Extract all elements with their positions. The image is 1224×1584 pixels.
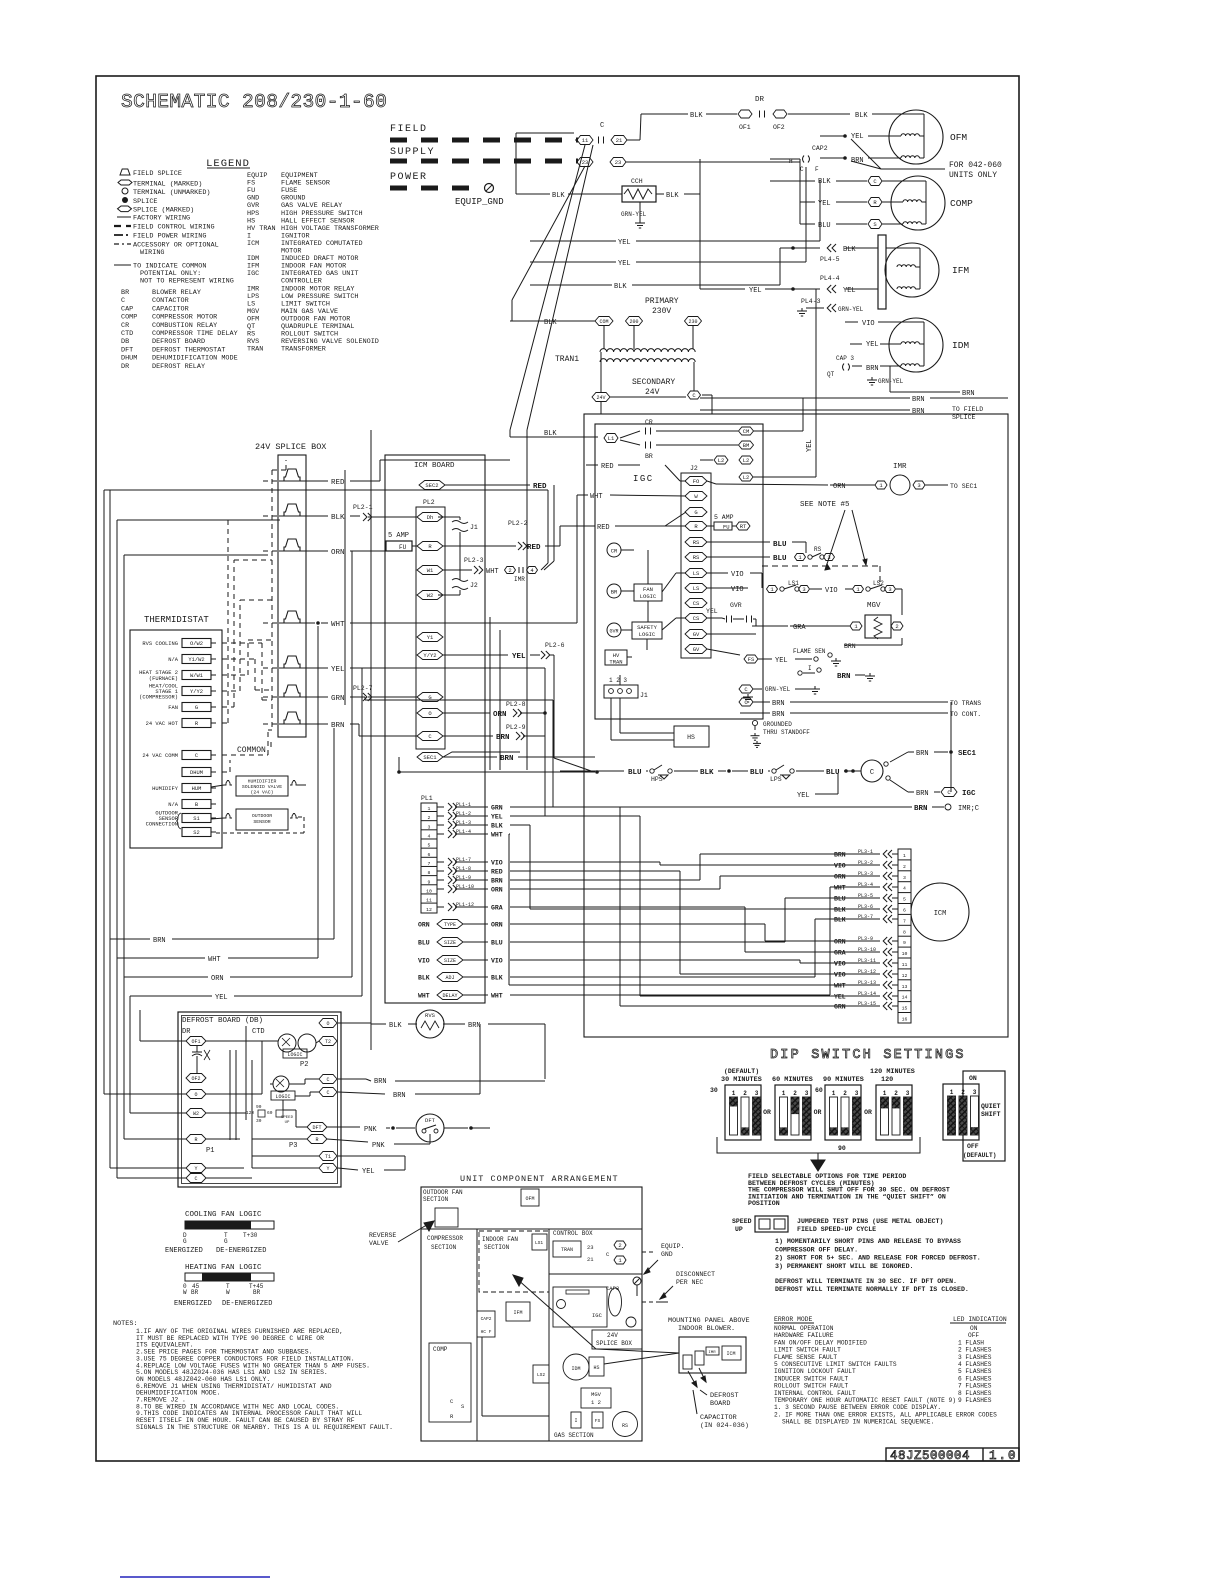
svg-text:DEFROST WILL TERMINATE NORMALL: DEFROST WILL TERMINATE NORMALLY IF DFT I… — [775, 1286, 969, 1293]
svg-text:DIP SWITCH SETTINGS: DIP SWITCH SETTINGS — [770, 1048, 966, 1063]
svg-text:G: G — [694, 509, 697, 516]
svg-text:RED: RED — [491, 869, 503, 876]
svg-text:SEC1: SEC1 — [423, 754, 437, 761]
svg-text:TEMPORARY ONE HOUR AUTOMATIC R: TEMPORARY ONE HOUR AUTOMATIC RESET FAULT… — [774, 1397, 956, 1404]
wire BRN lower left — [110, 728, 334, 945]
capacitor in DB — [192, 1046, 210, 1073]
svg-text:TYPE: TYPE — [444, 922, 456, 928]
svg-text:BLK: BLK — [331, 514, 345, 522]
svg-text:SEC1: SEC1 — [958, 750, 977, 758]
svg-text:FO: FO — [693, 478, 700, 485]
IGC section enclosure — [584, 414, 1008, 1037]
IGC board box — [595, 424, 763, 719]
svg-text:W2: W2 — [193, 1111, 199, 1117]
svg-text:15: 15 — [902, 1006, 908, 1012]
svg-text:60: 60 — [815, 1087, 823, 1094]
svg-text:2: 2 — [895, 623, 898, 630]
svg-text:TO FIELD: TO FIELD — [952, 406, 983, 413]
PL2-7 plug — [353, 685, 417, 701]
svg-text:IGC: IGC — [592, 1312, 603, 1319]
svg-text:(FURNACE): (FURNACE) — [149, 676, 178, 682]
svg-text:YEL: YEL — [749, 287, 762, 295]
svg-text:PNK: PNK — [372, 1142, 385, 1150]
svg-text:1: 1 — [854, 623, 858, 630]
svg-text:PL4-5: PL4-5 — [820, 256, 840, 263]
error mode table — [774, 1316, 1007, 1426]
svg-text:FIELD CONTROL WIRING: FIELD CONTROL WIRING — [133, 224, 215, 232]
svg-text:R: R — [195, 721, 199, 727]
svg-text:DFT: DFT — [425, 1117, 436, 1124]
svg-text:BRN: BRN — [153, 937, 166, 945]
svg-text:120 MINUTES: 120 MINUTES — [870, 1068, 915, 1076]
svg-text:3: 3 — [917, 482, 920, 489]
SEC1 node — [890, 702, 977, 792]
numbered instructions — [775, 1238, 981, 1293]
svg-text:2: 2 — [961, 1089, 965, 1096]
svg-text:C: C — [600, 122, 604, 130]
flame sensor — [707, 648, 875, 681]
svg-text:COMMON: COMMON — [237, 746, 266, 755]
svg-text:LS: LS — [693, 570, 700, 577]
PL2-1 plug — [353, 504, 417, 521]
svg-text:YEL: YEL — [851, 133, 864, 141]
svg-text:IMR;C: IMR;C — [958, 805, 979, 813]
svg-text:P1: P1 — [206, 1147, 214, 1155]
svg-text:T+30: T+30 — [243, 1232, 258, 1239]
svg-text:SAFETY: SAFETY — [637, 624, 658, 631]
svg-text:1 2 3: 1 2 3 — [609, 677, 627, 684]
PL3 wire ORN — [834, 936, 898, 946]
svg-text:HPS: HPS — [651, 776, 663, 783]
svg-text:IGC: IGC — [633, 474, 654, 484]
svg-text:GRA: GRA — [491, 905, 503, 912]
svg-text:C: C — [326, 1077, 329, 1083]
svg-text:O: O — [428, 710, 432, 717]
svg-text:OF1: OF1 — [191, 1039, 200, 1045]
svg-text:(IN 024-036): (IN 024-036) — [700, 1422, 749, 1430]
svg-text:10: 10 — [426, 888, 432, 894]
svg-text:ORN: ORN — [491, 887, 503, 894]
svg-text:OFM: OFM — [525, 1196, 534, 1202]
hall effect sensor HS — [611, 698, 709, 747]
svg-text:VIO: VIO — [834, 863, 846, 870]
svg-text:ERROR MODE: ERROR MODE — [774, 1316, 813, 1323]
svg-text:COMPRESSOR MOTOR: COMPRESSOR MOTOR — [152, 314, 217, 322]
svg-text:3: 3 — [903, 875, 906, 881]
defrost board DB box — [178, 1012, 341, 1187]
svg-text:C: C — [121, 297, 125, 305]
wire ORN lower left — [124, 551, 352, 983]
svg-text:1: 1 — [832, 1090, 836, 1097]
svg-text:23: 23 — [615, 159, 622, 166]
svg-text:LOGIC: LOGIC — [640, 593, 657, 600]
svg-text:GVR: GVR — [609, 629, 618, 635]
svg-text:60 MINUTES: 60 MINUTES — [772, 1076, 813, 1084]
svg-text:24 VAC HOT: 24 VAC HOT — [146, 721, 179, 727]
svg-text:4: 4 — [903, 886, 906, 892]
PL3 wire BLK — [834, 914, 898, 924]
svg-text:FS: FS — [595, 1418, 601, 1424]
svg-text:FACTORY WIRING: FACTORY WIRING — [133, 215, 190, 223]
svg-text:C: C — [800, 166, 804, 173]
svg-text:9: 9 — [428, 879, 431, 885]
svg-text:W2: W2 — [427, 592, 434, 599]
svg-text:UP: UP — [285, 1121, 290, 1125]
svg-text:ICM: ICM — [247, 240, 259, 248]
svg-text:THERMIDISTAT: THERMIDISTAT — [144, 615, 209, 625]
svg-text:BRN: BRN — [916, 790, 929, 798]
svg-text:FIELD SPLICE: FIELD SPLICE — [133, 170, 182, 178]
svg-text:MGV: MGV — [867, 602, 881, 610]
svg-text:VIO: VIO — [491, 860, 503, 867]
svg-text:14: 14 — [902, 995, 908, 1001]
svg-text:7: 7 — [903, 918, 906, 924]
svg-text:30 MINUTES: 30 MINUTES — [721, 1076, 762, 1084]
splice box wire labels — [306, 460, 577, 736]
svg-text:HEATING FAN LOGIC: HEATING FAN LOGIC — [185, 1264, 262, 1272]
wire RED into IGC 2 — [586, 524, 686, 532]
svg-text:5: 5 — [903, 897, 906, 903]
svg-text:L2: L2 — [743, 457, 750, 464]
svg-text:IMR: IMR — [708, 1351, 716, 1355]
svg-text:CS: CS — [693, 615, 700, 622]
relay GVR circle — [607, 623, 621, 637]
IGC node — [890, 780, 976, 798]
svg-text:WHT: WHT — [491, 993, 503, 1000]
svg-text:W1: W1 — [427, 567, 434, 574]
svg-text:120: 120 — [246, 1110, 254, 1116]
svg-text:2: 2 — [618, 1242, 621, 1249]
svg-text:3: 3 — [755, 1090, 759, 1097]
svg-text:2. IF MORE THAN ONE ERROR EXIS: 2. IF MORE THAN ONE ERROR EXISTS, ALL AP… — [774, 1411, 997, 1418]
svg-text:4 FLASHES: 4 FLASHES — [958, 1361, 992, 1368]
svg-text:5 AMP: 5 AMP — [388, 532, 409, 540]
svg-text:PER NEC: PER NEC — [676, 1279, 703, 1286]
ICM terminal C — [417, 732, 443, 741]
svg-text:FS: FS — [748, 656, 755, 663]
relay BR circle — [607, 584, 621, 598]
svg-text:RED: RED — [597, 524, 610, 532]
svg-text:DE-ENERGIZED: DE-ENERGIZED — [222, 1300, 272, 1308]
svg-text:R: R — [873, 199, 877, 206]
svg-text:FU: FU — [723, 524, 730, 531]
bracket under dip switches — [717, 1137, 920, 1171]
svg-text:ADJ: ADJ — [445, 975, 454, 981]
svg-text:OF2: OF2 — [191, 1076, 200, 1082]
svg-text:48JZ500004: 48JZ500004 — [890, 1449, 970, 1463]
svg-text:21: 21 — [616, 137, 623, 144]
svg-text:YEL: YEL — [706, 608, 718, 615]
svg-text:L1: L1 — [608, 435, 615, 442]
svg-text:S1: S1 — [193, 816, 199, 822]
dip switch 30 minutes — [710, 1068, 762, 1140]
svg-text:C: C — [194, 1176, 197, 1182]
wire PNK 2 — [327, 1139, 430, 1150]
contactor coil C — [797, 760, 890, 800]
svg-text:J1: J1 — [640, 692, 648, 699]
svg-text:3 FLASHES: 3 FLASHES — [958, 1354, 992, 1361]
ICM terminal R — [417, 542, 443, 551]
svg-text:120: 120 — [881, 1076, 893, 1084]
high pressure switch HPS chain — [560, 765, 855, 783]
svg-text:11: 11 — [426, 898, 432, 904]
svg-text:J2: J2 — [690, 465, 698, 472]
svg-text:Y1/W2: Y1/W2 — [188, 657, 204, 663]
svg-text:BLU: BLU — [418, 940, 430, 947]
svg-text:P3: P3 — [289, 1142, 297, 1150]
PL2-2 plug — [443, 520, 595, 552]
transformer TRAN1 — [510, 297, 702, 402]
svg-text:GRA: GRA — [834, 950, 846, 957]
svg-text:BLU: BLU — [773, 541, 787, 549]
speed up jumper — [732, 1216, 943, 1233]
svg-text:I: I — [808, 665, 812, 672]
svg-text:CAPACITOR: CAPACITOR — [700, 1414, 737, 1422]
svg-text:ORN: ORN — [418, 922, 430, 929]
svg-text:W: W — [694, 493, 698, 500]
svg-text:R: R — [694, 523, 698, 530]
wire BRN to cont — [740, 711, 981, 730]
terminal SEC1 — [417, 753, 443, 762]
ICM option TYPE — [418, 920, 503, 929]
svg-text:BRN: BRN — [962, 390, 975, 398]
svg-text:1: 1 — [883, 1090, 887, 1097]
svg-text:S: S — [873, 221, 877, 228]
svg-text:REVERSE: REVERSE — [369, 1232, 396, 1239]
limit switch LS1 — [707, 580, 852, 595]
blower relay contact BR — [620, 440, 754, 460]
svg-text:R: R — [315, 1137, 318, 1143]
svg-text:230V: 230V — [652, 307, 671, 316]
svg-text:N/A: N/A — [168, 657, 178, 663]
svg-text:C: C — [326, 1090, 329, 1096]
svg-text:LS1: LS1 — [535, 1240, 543, 1246]
svg-text:4: 4 — [428, 833, 431, 839]
svg-text:JUMPERED TEST PINS (USE METAL: JUMPERED TEST PINS (USE METAL OBJECT) — [797, 1218, 943, 1225]
PL3 wire WHT — [834, 882, 898, 892]
svg-text:LED INDICATION: LED INDICATION — [953, 1316, 1007, 1323]
svg-text:ICM BOARD: ICM BOARD — [414, 462, 455, 470]
ICM terminal Y1 — [417, 633, 443, 642]
svg-text:12: 12 — [426, 907, 432, 913]
svg-text:5 FLASHES: 5 FLASHES — [958, 1368, 992, 1375]
svg-text:BLK: BLK — [700, 769, 714, 777]
svg-text:C: C — [195, 753, 198, 759]
svg-text:1 2: 1 2 — [591, 1399, 601, 1406]
terminal SEC2 — [419, 481, 554, 571]
svg-text:3: 3 — [802, 586, 805, 593]
svg-text:S2: S2 — [193, 830, 199, 836]
svg-text:1: 1 — [618, 1257, 622, 1264]
svg-text:I: I — [574, 1418, 577, 1424]
svg-text:R: R — [194, 1137, 197, 1143]
svg-text:THRU STANDOFF: THRU STANDOFF — [763, 729, 810, 736]
rollout switch RS — [707, 546, 835, 563]
svg-text:3) PERMANENT SHORT WILL BE IGN: 3) PERMANENT SHORT WILL BE IGNORED. — [775, 1263, 914, 1270]
CTD timer — [252, 1028, 316, 1058]
wire YEL lower left — [130, 668, 362, 1002]
svg-text:ENERGIZED: ENERGIZED — [165, 1247, 203, 1255]
svg-text:30: 30 — [710, 1087, 718, 1094]
ICM option ADJ — [418, 973, 503, 982]
svg-text:PL2-7: PL2-7 — [353, 685, 373, 692]
fuse FU 5 AMP — [386, 532, 417, 551]
svg-text:DEFROST RELAY: DEFROST RELAY — [152, 363, 205, 371]
ICM option SIZE — [418, 938, 503, 947]
terminal C GRN-YEL — [739, 685, 820, 702]
svg-text:VIO: VIO — [418, 958, 430, 965]
svg-text:C: C — [450, 1398, 454, 1405]
svg-text:90 MINUTES: 90 MINUTES — [823, 1076, 864, 1084]
svg-text:FLAME SENSE FAULT: FLAME SENSE FAULT — [774, 1354, 837, 1361]
svg-text:PL2-3: PL2-3 — [464, 557, 484, 564]
svg-text:BLK: BLK — [491, 975, 503, 982]
svg-text:IDM: IDM — [571, 1366, 580, 1372]
defrost board callout — [688, 1368, 749, 1430]
svg-text:Y1: Y1 — [427, 634, 434, 641]
svg-text:SCHEMATIC 208/230-1-60: SCHEMATIC 208/230-1-60 — [121, 91, 387, 113]
svg-text:DEFROST WILL TERMINATE IN 30 S: DEFROST WILL TERMINATE IN 30 SEC. IF DFT… — [775, 1278, 957, 1285]
svg-text:T2: T2 — [325, 1039, 331, 1045]
svg-text:NOTES:: NOTES: — [113, 1320, 137, 1328]
svg-text:C: C — [606, 1251, 610, 1258]
svg-text:ENERGIZED: ENERGIZED — [174, 1300, 212, 1308]
svg-text:1: 1 — [950, 1089, 954, 1096]
svg-text:SHIFT: SHIFT — [981, 1111, 1001, 1118]
svg-text:BLK: BLK — [544, 430, 557, 438]
wire YEL vertical to L2 — [806, 289, 816, 477]
field control dashed wires thermidistat to splice box — [222, 460, 286, 772]
svg-text:BLK: BLK — [491, 823, 503, 830]
svg-text:GVR: GVR — [730, 602, 742, 609]
svg-text:3: 3 — [855, 1090, 859, 1097]
svg-text:24V SPLICE BOX: 24V SPLICE BOX — [255, 442, 326, 452]
svg-text:BLU: BLU — [750, 769, 764, 777]
svg-text:VALVE: VALVE — [369, 1240, 389, 1247]
svg-text:FAN ON/OFF DELAY MODIFIED: FAN ON/OFF DELAY MODIFIED — [774, 1339, 867, 1346]
svg-text:6 FLASHES: 6 FLASHES — [958, 1375, 992, 1382]
svg-text:C: C — [428, 733, 432, 740]
svg-text:ORN: ORN — [834, 939, 846, 946]
capacitor CAP2 — [770, 145, 828, 173]
defrost logic relay — [271, 1076, 295, 1100]
svg-text:230: 230 — [688, 319, 697, 325]
outdoor fan motor OFM — [820, 110, 967, 165]
center long wires — [345, 402, 601, 1050]
svg-text:BLU: BLU — [628, 769, 642, 777]
svg-text:YEL: YEL — [512, 653, 526, 661]
svg-text:SPLICE: SPLICE — [133, 198, 157, 206]
wire YEL defrost — [338, 1156, 405, 1176]
PL1 pin 3 wire BLK — [437, 820, 503, 830]
svg-text:2) SHORT FOR 5+ SEC. AND RELEA: 2) SHORT FOR 5+ SEC. AND RELEASE FOR FOR… — [775, 1255, 981, 1262]
svg-text:WHT: WHT — [834, 983, 846, 990]
ICM terminal W1 — [417, 566, 443, 575]
svg-text:DEFROST BOARD: DEFROST BOARD — [152, 338, 205, 346]
svg-text:BLK: BLK — [834, 917, 846, 924]
svg-text:EQUIP.: EQUIP. — [661, 1243, 684, 1250]
heating fan logic bar — [174, 1264, 274, 1308]
terminal T1 — [319, 1152, 337, 1161]
PL2-6 plug — [443, 642, 599, 774]
jumper J2 — [438, 579, 478, 596]
svg-text:TRAN: TRAN — [561, 1247, 573, 1253]
dip switch 120 minutes — [864, 1068, 915, 1140]
svg-text:OUTDOOR FAN: OUTDOOR FAN — [423, 1189, 463, 1196]
wire BLK to L1 — [510, 430, 618, 443]
svg-text:HUM: HUM — [192, 786, 202, 792]
internal IGC wiring — [620, 465, 686, 685]
svg-text:POSITION: POSITION — [748, 1200, 780, 1207]
svg-text:RED: RED — [527, 544, 541, 552]
svg-text:DR: DR — [182, 1028, 191, 1036]
legend block — [114, 158, 379, 371]
title block 48JZ500004 — [886, 1448, 1019, 1463]
PL2-8 plug — [443, 701, 547, 719]
svg-text:11: 11 — [582, 137, 589, 144]
svg-text:T1: T1 — [325, 1154, 331, 1160]
svg-text:PL4-4: PL4-4 — [820, 275, 840, 282]
svg-text:HV TRAN: HV TRAN — [247, 225, 276, 233]
svg-text:BLK: BLK — [855, 112, 868, 120]
svg-text:SPEED: SPEED — [281, 1116, 294, 1120]
svg-text:BRN: BRN — [837, 673, 851, 681]
terminal DFT — [307, 1123, 327, 1132]
svg-text:BRN: BRN — [468, 1022, 481, 1030]
svg-text:YEL: YEL — [866, 341, 879, 349]
svg-text:CS: CS — [693, 600, 700, 607]
svg-text:YEL: YEL — [362, 1168, 375, 1176]
svg-text:C: C — [744, 686, 748, 693]
svg-text:R: R — [450, 1413, 454, 1420]
cooling fan logic bar — [165, 1211, 274, 1255]
svg-text:ICM: ICM — [934, 910, 947, 918]
common label — [237, 742, 271, 755]
svg-text:RS: RS — [622, 1423, 628, 1429]
svg-text:F: F — [815, 166, 819, 173]
SEC1 wire BRN — [443, 752, 595, 763]
IMR C node — [560, 804, 979, 813]
svg-text:ROLLOUT SWITCH FAULT: ROLLOUT SWITCH FAULT — [774, 1383, 849, 1390]
PL3 wire VIO — [834, 860, 898, 870]
svg-text:BM: BM — [743, 442, 750, 449]
svg-text:G: G — [183, 1238, 187, 1245]
PL3 wire VIO — [834, 969, 898, 979]
svg-text:LPS: LPS — [770, 776, 782, 783]
combustion relay contact CR — [620, 419, 754, 438]
grounded thru standoff — [751, 721, 811, 747]
svg-text:BRN: BRN — [834, 852, 846, 859]
svg-text:(COMPRESSOR): (COMPRESSOR) — [139, 695, 178, 701]
svg-text:SEC2: SEC2 — [425, 482, 438, 489]
svg-text:Y: Y — [326, 1166, 329, 1172]
svg-text:2: 2 — [743, 1090, 747, 1097]
svg-text:SENSOR: SENSOR — [253, 819, 270, 825]
svg-text:GRN: GRN — [491, 805, 503, 812]
svg-text:BR: BR — [611, 589, 618, 596]
svg-text:BRN: BRN — [844, 643, 856, 650]
svg-text:BLK: BLK — [834, 907, 846, 914]
svg-text:TRANSFORMER: TRANSFORMER — [281, 346, 326, 354]
PL3 wire GRA — [834, 947, 898, 957]
svg-text:WHT: WHT — [331, 621, 345, 629]
svg-text:FIELD SPEED-UP CYCLE: FIELD SPEED-UP CYCLE — [797, 1226, 876, 1233]
PL1 pin 8 wire RED — [437, 866, 503, 876]
svg-text:GRN-YEL: GRN-YEL — [621, 211, 647, 218]
terminal Y right — [319, 1164, 337, 1173]
svg-text:PL2: PL2 — [423, 499, 435, 506]
svg-text:21: 21 — [587, 1256, 594, 1263]
